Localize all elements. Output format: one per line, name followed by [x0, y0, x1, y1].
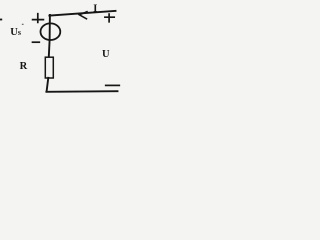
scan speckle at left edge — [0, 19, 1, 21]
plus sign of port voltage U — [105, 14, 114, 22]
wire : top horizontal wire — [49, 11, 115, 16]
wire : left vertical branch through source — [49, 15, 50, 57]
arrow head for current I — [79, 12, 87, 19]
plus sign of source Us — [33, 14, 44, 23]
svg-text:I: I — [93, 3, 97, 14]
svg-text:Us: Us — [10, 27, 21, 38]
minus sign of port voltage U — [106, 84, 120, 86]
wire : bottom horizontal wire — [46, 90, 117, 93]
wire : below resistor to bottom corner — [47, 78, 49, 92]
voltage source Us — [41, 23, 61, 40]
svg-text:R: R — [20, 61, 28, 72]
resistor R — [45, 57, 53, 78]
svg-text:U: U — [102, 49, 110, 60]
scan speckle dot above Us — [21, 23, 24, 25]
minus sign of source Us — [33, 41, 40, 43]
